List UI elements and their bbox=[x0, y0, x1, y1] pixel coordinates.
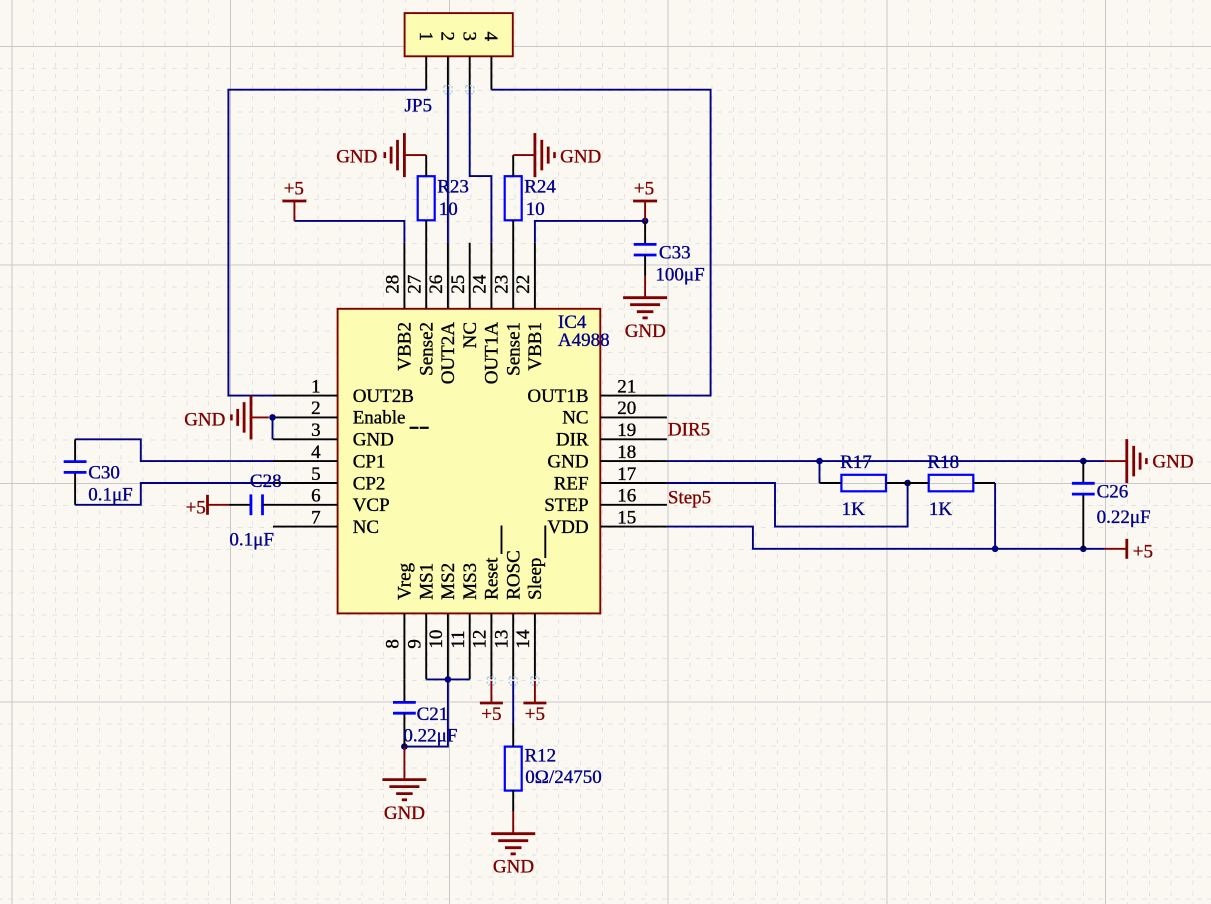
svg-text:Reset: Reset bbox=[482, 557, 503, 600]
IC4 pin 7 lead bbox=[273, 526, 338, 528]
wire JP5 pin3 to OUT1A bbox=[470, 90, 492, 243]
junction at C33 top bbox=[642, 218, 649, 225]
svg-text:11: 11 bbox=[448, 630, 469, 648]
svg-text:Sense1: Sense1 bbox=[504, 322, 525, 376]
hotspot marker JP5 pin3 bbox=[466, 86, 474, 94]
ground GND (R24) bbox=[513, 154, 535, 156]
IC4 pin 24 lead bbox=[490, 243, 492, 309]
IC4 pin 23 lead bbox=[512, 243, 514, 309]
IC4 pin 28 lead bbox=[403, 243, 405, 309]
IC4 pin 13 lead bbox=[512, 613, 514, 679]
IC4 pin 27 lead bbox=[425, 243, 427, 309]
svg-text:0.1μF: 0.1μF bbox=[229, 530, 274, 551]
svg-text:GND: GND bbox=[547, 451, 588, 472]
junction R17/R18 bbox=[904, 480, 911, 487]
IC4 pin 1 lead bbox=[273, 395, 338, 397]
capacitor C21 bbox=[403, 679, 405, 701]
svg-text:+5: +5 bbox=[1133, 541, 1153, 562]
wire GND rail (pin18) bbox=[667, 460, 1105, 462]
svg-text:5: 5 bbox=[311, 464, 321, 485]
svg-text:Vreg: Vreg bbox=[395, 562, 416, 599]
wire MS1-MS3 rail bbox=[426, 678, 470, 680]
Reset active-low bar bbox=[501, 526, 503, 555]
capacitor C33 bbox=[644, 221, 646, 244]
resistor R23 bbox=[418, 176, 435, 220]
svg-text:ROSC: ROSC bbox=[504, 550, 525, 600]
svg-text:STEP: STEP bbox=[544, 495, 588, 516]
svg-text:VBB1: VBB1 bbox=[525, 322, 546, 371]
svg-text:+5: +5 bbox=[186, 497, 206, 518]
IC4 pin 14 lead bbox=[534, 613, 536, 679]
connector JP5 bbox=[405, 13, 513, 56]
svg-text:OUT2B: OUT2B bbox=[353, 386, 414, 407]
wire C30 top to CP1 bbox=[75, 439, 273, 461]
wire drop to R17 bbox=[819, 461, 821, 483]
svg-text:R12: R12 bbox=[525, 746, 557, 767]
svg-text:GND: GND bbox=[625, 321, 666, 342]
wire JP5 pin2 to OUT2A bbox=[447, 90, 449, 243]
svg-text:4: 4 bbox=[480, 31, 501, 41]
junction C26 bottom bbox=[1080, 546, 1087, 553]
svg-text:GND: GND bbox=[353, 430, 394, 451]
svg-text:CP1: CP1 bbox=[353, 451, 386, 472]
svg-text:17: 17 bbox=[617, 464, 636, 485]
svg-text:DIR: DIR bbox=[556, 430, 589, 451]
svg-text:1K: 1K bbox=[929, 499, 953, 520]
IC4 pin 15 lead bbox=[600, 526, 667, 528]
IC4 pin 11 lead bbox=[469, 613, 471, 679]
svg-text:14: 14 bbox=[513, 629, 534, 649]
IC4 pin 5 lead bbox=[273, 482, 338, 484]
IC4 pin 3 lead bbox=[273, 438, 338, 440]
wire +5 to VBB2 bbox=[294, 221, 404, 243]
svg-text:VCP: VCP bbox=[353, 495, 390, 516]
svg-text:16: 16 bbox=[617, 486, 636, 507]
power +5 (Sleep pin14) bbox=[534, 681, 536, 703]
svg-text:13: 13 bbox=[491, 630, 512, 649]
svg-text:2: 2 bbox=[311, 398, 321, 419]
wire R18 down to +5 rail bbox=[994, 483, 996, 549]
svg-text:A4988: A4988 bbox=[558, 330, 610, 351]
svg-text:R24: R24 bbox=[524, 177, 556, 198]
svg-text:2: 2 bbox=[437, 31, 458, 41]
IC4 pin 17 lead bbox=[600, 482, 667, 484]
JP5 pin 3 lead bbox=[469, 56, 471, 89]
IC4 pin 9 lead bbox=[425, 613, 427, 679]
svg-text:0.22μF: 0.22μF bbox=[1097, 507, 1151, 528]
svg-text:21: 21 bbox=[617, 376, 636, 397]
svg-text:1: 1 bbox=[311, 376, 321, 397]
resistor R24 bbox=[505, 176, 522, 220]
svg-text:GND: GND bbox=[493, 856, 534, 877]
wire MS rail down to C21 node bbox=[404, 679, 448, 746]
power +5 (C33) bbox=[644, 201, 646, 221]
ground GND (R12) bbox=[512, 811, 514, 834]
svg-text:100μF: 100μF bbox=[655, 265, 704, 286]
Enable active-low underline bbox=[410, 427, 419, 429]
svg-text:1K: 1K bbox=[842, 499, 866, 520]
svg-text:R23: R23 bbox=[437, 177, 469, 198]
IC4 pin 20 lead bbox=[600, 416, 667, 418]
svg-text:C21: C21 bbox=[417, 704, 449, 725]
svg-text:10: 10 bbox=[526, 199, 545, 220]
ground GND (C33) bbox=[644, 276, 646, 298]
wire VDD to +5 rail bbox=[667, 527, 1105, 549]
svg-text:C33: C33 bbox=[659, 242, 691, 263]
svg-text:GND: GND bbox=[1152, 451, 1193, 472]
JP5 pin 2 lead bbox=[447, 56, 449, 89]
power +5 (Reset pin12) bbox=[490, 681, 492, 703]
IC4 pin 8 lead bbox=[403, 613, 405, 679]
svg-text:MS3: MS3 bbox=[460, 563, 481, 600]
junction R17 top bbox=[816, 458, 823, 465]
svg-text:R17: R17 bbox=[840, 452, 872, 473]
svg-text:OUT1B: OUT1B bbox=[527, 386, 588, 407]
ground GND (C21) bbox=[403, 747, 405, 780]
hotspot marker pin12 bbox=[487, 677, 495, 685]
svg-text:VDD: VDD bbox=[547, 517, 588, 538]
IC4 pin 16 lead bbox=[600, 504, 667, 506]
svg-text:28: 28 bbox=[383, 275, 404, 294]
IC4 pin 25 lead bbox=[469, 243, 471, 309]
svg-text:Step5: Step5 bbox=[668, 487, 711, 508]
capacitor C26 bbox=[1082, 461, 1084, 482]
junction MS rail bbox=[445, 676, 452, 683]
IC4 pin 22 lead bbox=[534, 243, 536, 309]
svg-text:VBB2: VBB2 bbox=[395, 322, 416, 371]
svg-text:GND: GND bbox=[560, 146, 601, 167]
wire OUT1B loop top-right bbox=[491, 90, 710, 396]
svg-text:Sense2: Sense2 bbox=[417, 322, 438, 376]
IC4 pin 26 lead bbox=[447, 243, 449, 309]
svg-text:6: 6 bbox=[311, 486, 321, 507]
ground GND (far right) bbox=[1105, 460, 1127, 462]
IC4 pin 21 lead bbox=[600, 395, 667, 397]
svg-text:7: 7 bbox=[311, 507, 321, 528]
svg-text:20: 20 bbox=[617, 398, 636, 419]
svg-text:GND: GND bbox=[336, 146, 377, 167]
svg-text:12: 12 bbox=[470, 630, 491, 649]
IC4 pin 4 lead bbox=[273, 460, 338, 462]
junction R18/+5 bbox=[992, 546, 999, 553]
svg-text:DIR5: DIR5 bbox=[668, 420, 710, 441]
wire ROSC to R12 bbox=[512, 681, 514, 723]
resistor R18 bbox=[929, 475, 974, 492]
wire C30 bottom to CP2 bbox=[75, 483, 273, 505]
svg-text:+5: +5 bbox=[634, 179, 654, 200]
svg-text:OUT1A: OUT1A bbox=[482, 322, 503, 385]
svg-text:JP5: JP5 bbox=[405, 96, 432, 117]
svg-text:GND: GND bbox=[384, 803, 425, 824]
power +5 (VBB2) bbox=[293, 201, 295, 221]
svg-text:0.22μF: 0.22μF bbox=[403, 725, 457, 746]
junction C26 top bbox=[1080, 458, 1087, 465]
hotspot marker pin13 bbox=[509, 677, 517, 685]
IC4 pin 12 lead bbox=[490, 613, 492, 679]
svg-text:GND: GND bbox=[184, 410, 225, 431]
junction C21 bottom bbox=[401, 743, 408, 750]
svg-text:C26: C26 bbox=[1097, 482, 1129, 503]
IC4 pin 2 lead bbox=[273, 416, 338, 418]
power +5 (far right) bbox=[1105, 548, 1127, 550]
svg-text:27: 27 bbox=[404, 275, 425, 294]
ground GND (pin2/pin3) bbox=[251, 416, 269, 418]
svg-text:4: 4 bbox=[311, 442, 321, 463]
svg-text:10: 10 bbox=[426, 630, 447, 649]
wire VBB1 to +5/C33 node bbox=[535, 221, 645, 243]
svg-text:MS2: MS2 bbox=[438, 563, 459, 600]
hotspot marker JP5 pin2 bbox=[444, 86, 452, 94]
junction pin2 GND bbox=[269, 414, 276, 421]
svg-text:22: 22 bbox=[513, 275, 534, 294]
svg-text:3: 3 bbox=[459, 31, 480, 41]
ground GND (R23) bbox=[404, 154, 426, 156]
svg-text:NC: NC bbox=[562, 408, 588, 429]
svg-text:+5: +5 bbox=[481, 704, 501, 725]
IC4 pin 6 lead bbox=[273, 504, 338, 506]
IC4 pin 19 lead bbox=[600, 438, 667, 440]
JP5 pin 1 lead bbox=[425, 56, 427, 89]
svg-text:1: 1 bbox=[415, 31, 436, 41]
svg-text:25: 25 bbox=[448, 275, 469, 294]
svg-text:C30: C30 bbox=[88, 462, 120, 483]
svg-text:Enable: Enable bbox=[353, 408, 406, 429]
svg-text:Sleep: Sleep bbox=[525, 558, 546, 600]
wire GND to pin3 bbox=[272, 417, 274, 439]
IC4 pin 10 lead bbox=[447, 613, 449, 679]
svg-text:REF: REF bbox=[554, 473, 589, 494]
Sleep active-low bar bbox=[544, 526, 546, 559]
svg-text:C28: C28 bbox=[250, 471, 282, 492]
capacitor C28 bbox=[229, 504, 251, 506]
resistor R12 bbox=[505, 747, 522, 791]
svg-text:NC: NC bbox=[353, 517, 379, 538]
svg-text:R18: R18 bbox=[927, 452, 959, 473]
svg-text:24: 24 bbox=[470, 274, 491, 294]
svg-text:+5: +5 bbox=[284, 179, 304, 200]
svg-text:26: 26 bbox=[426, 275, 447, 294]
svg-text:8: 8 bbox=[383, 639, 404, 649]
svg-text:0.1μF: 0.1μF bbox=[88, 484, 133, 505]
capacitor C30 bbox=[74, 439, 76, 460]
resistor R17 bbox=[841, 475, 886, 492]
svg-text:CP2: CP2 bbox=[353, 473, 386, 494]
svg-text:10: 10 bbox=[439, 199, 458, 220]
svg-text:19: 19 bbox=[617, 420, 636, 441]
op IC4 A4988 body bbox=[338, 309, 601, 614]
wire OUT2B loop top-left bbox=[228, 90, 426, 396]
svg-text:18: 18 bbox=[617, 442, 636, 463]
IC4 pin 18 lead bbox=[600, 460, 667, 462]
svg-text:15: 15 bbox=[617, 507, 636, 528]
hotspot marker pin14 bbox=[531, 677, 539, 685]
JP5 pin 4 lead bbox=[490, 56, 492, 89]
svg-text:MS1: MS1 bbox=[417, 563, 438, 600]
wire REF to R17/R18 node bbox=[667, 483, 908, 527]
power +5 (C28) bbox=[208, 504, 229, 506]
svg-text:23: 23 bbox=[491, 275, 512, 294]
svg-text:NC: NC bbox=[460, 322, 481, 348]
svg-text:0Ω/24750: 0Ω/24750 bbox=[525, 767, 601, 788]
svg-text:9: 9 bbox=[404, 639, 425, 649]
svg-text:3: 3 bbox=[311, 420, 321, 441]
svg-text:OUT2A: OUT2A bbox=[438, 322, 459, 385]
svg-text:+5: +5 bbox=[525, 704, 545, 725]
